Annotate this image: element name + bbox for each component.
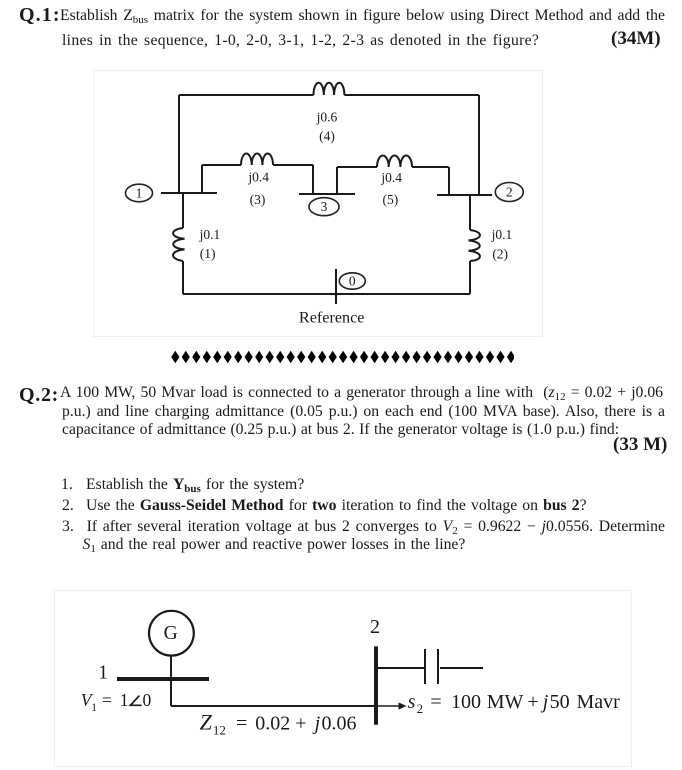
svg-text:50: 50: [550, 691, 570, 713]
svg-text:0.02: 0.02: [255, 712, 290, 734]
svg-text:2: 2: [417, 701, 424, 716]
svg-text:1: 1: [136, 186, 143, 201]
svg-text:j: j: [540, 691, 549, 713]
svg-text:MW: MW: [487, 691, 524, 713]
svg-text:j0.4: j0.4: [247, 170, 269, 185]
svg-text:G: G: [164, 623, 178, 644]
svg-text:j0.1: j0.1: [491, 227, 513, 242]
svg-text:j0.1: j0.1: [199, 227, 221, 242]
svg-text:Mavr: Mavr: [577, 691, 621, 713]
svg-text:0.06: 0.06: [322, 712, 357, 734]
svg-text:j: j: [312, 712, 321, 734]
svg-text:0: 0: [349, 274, 356, 289]
svg-text:(3): (3): [250, 192, 266, 207]
svg-text:j0.6: j0.6: [316, 110, 338, 125]
svg-text:s: s: [408, 691, 416, 713]
svg-text:2: 2: [506, 185, 513, 200]
svg-text:(1): (1): [200, 246, 216, 261]
svg-text:=: =: [430, 691, 441, 713]
svg-text:3: 3: [321, 199, 328, 214]
svg-text:Reference: Reference: [299, 309, 365, 327]
svg-text:j0.4: j0.4: [380, 170, 402, 185]
svg-text:(5): (5): [383, 192, 399, 207]
svg-text:1: 1: [120, 690, 129, 710]
svg-text:100: 100: [451, 691, 481, 713]
svg-text:=: =: [236, 712, 247, 734]
svg-text:2: 2: [370, 616, 380, 638]
svg-text:+: +: [295, 712, 306, 734]
svg-text:Z: Z: [200, 710, 213, 735]
svg-text:1: 1: [98, 662, 108, 683]
svg-text:1: 1: [91, 702, 97, 714]
svg-text:+: +: [527, 691, 538, 713]
svg-text:0: 0: [143, 690, 152, 710]
svg-text:12: 12: [213, 723, 226, 738]
svg-text:=: =: [102, 690, 112, 710]
svg-text:(4): (4): [319, 129, 335, 144]
svg-text:(2): (2): [492, 247, 508, 262]
